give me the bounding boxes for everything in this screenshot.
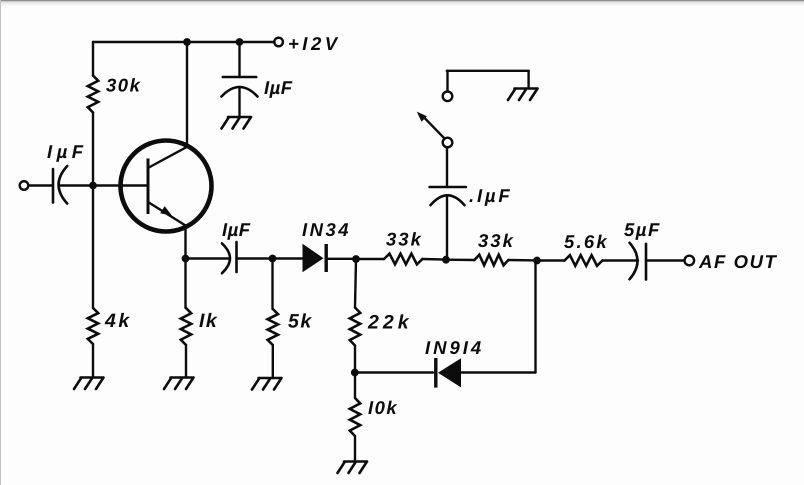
capacitor C1 1uF curved plate [59,166,68,204]
wire C5 to AF OUT [646,259,684,261]
node 10k junction dot [351,369,359,377]
resistor 1k [181,308,191,345]
node 22k junction dot [352,255,360,263]
resistor 22k [350,308,360,346]
svg-text:33k: 33k [386,229,423,250]
wire collector to rail [186,42,188,147]
svg-text:4k: 4k [104,310,132,332]
wire node to 5.6k [537,259,565,261]
svg-text:22k: 22k [367,312,413,334]
wire +12V top rail [93,41,275,43]
switch arm arrowhead [417,112,427,122]
svg-text:+I2V: +I2V [288,33,341,54]
wire 30k top lead [92,42,94,76]
wire 33k to switch node [422,258,446,261]
scan border left edge [0,0,1,485]
capacitor C5 5uF straight plate [645,244,648,280]
svg-text:IN9I4: IN9I4 [425,337,484,358]
wire C3 to 5k node [237,257,273,259]
transistor Q1 emitter stroke [149,203,186,226]
wire rail to C2 top plate [238,42,240,77]
capacitor C5 5uF curved plate [630,243,638,280]
wire 4k to ground [92,344,94,378]
svg-text:IN34: IN34 [302,219,351,240]
wire base node to transistor base [93,184,147,186]
wire 22k to 10k node [354,346,356,373]
diode D1 1N34 cathode bar [325,244,328,272]
AF OUT terminal [685,256,695,266]
resistor 10k [350,398,360,436]
wire emitter lead [184,226,186,259]
switch pole terminal [443,138,453,148]
input terminal [20,181,29,190]
capacitor C4 .1uF curved plate [431,195,465,205]
ground under 4k [74,378,104,390]
wire 10k node to D2 [355,371,433,373]
svg-text:AF OUT: AF OUT [698,251,778,272]
ground under 10k [338,462,368,474]
diode D2 1N914 triangle [438,358,461,387]
switch throw terminal [443,92,453,102]
wire D1 to 22k node [328,258,356,260]
capacitor C3 1uF straight plate [235,242,238,272]
ground under 5k [252,378,282,390]
diode D1 1N34 triangle [303,244,324,272]
capacitor C4 .1uF straight plate [430,186,466,189]
wire switch top rail [447,70,529,72]
svg-text:5.6k: 5.6k [564,231,609,252]
wire C2 to ground [238,87,240,117]
wire 5k node to D1 [273,257,304,259]
resistor 5.6k [565,255,603,266]
wire D2 to feedback corner [461,371,536,373]
node 5.6k junction dot [533,257,541,265]
switch arm [425,118,445,138]
wire 1k to ground [185,345,187,378]
wire C4 to switch pole [446,148,448,187]
wire input terminal to C1 [29,184,54,186]
wire 10k top lead [354,373,356,399]
svg-text:IµF: IµF [264,77,293,98]
wire feedback vertical [534,261,536,373]
wire 33k second to 5.6k node [508,259,537,262]
transistor Q1 emitter arrow [160,206,172,215]
capacitor C2 1uF curved plate [222,87,258,97]
resistor 30k [88,76,98,113]
wire rail down to ground [527,71,529,89]
node 5k junction dot [269,255,277,263]
resistor 5k [268,309,278,345]
node base junction dot [89,182,97,190]
resistor 33k second [474,255,508,266]
svg-text:30k: 30k [106,75,142,96]
wire 5k top lead [271,259,273,310]
wire throw terminal up [446,71,448,92]
capacitor C1 1uF straight plate [52,169,55,203]
svg-text:IµF: IµF [47,141,88,162]
wire 22k node to 33k [356,258,384,260]
svg-text:I0k: I0k [368,397,398,418]
svg-text:5µF: 5µF [624,219,661,240]
capacitor C2 1uF straight plate [223,76,256,79]
node collector rail junction dot [183,38,191,46]
node bypass cap rail junction dot [236,38,244,46]
wire switch node to 33k second [446,259,474,262]
wire switch node to C4 [446,196,448,260]
diode D2 1N914 cathode bar [434,358,437,388]
transistor Q1 body circle [121,141,212,232]
svg-text:.IµF: .IµF [469,185,512,206]
wire emitter node to 1k [184,259,186,309]
wire base branch (30k bottom to 4k top) [92,113,94,309]
scan border top edge [0,0,804,1]
transistor Q1 base bar [147,159,150,215]
capacitor C3 1uF curved plate [222,243,230,273]
svg-text:Ik: Ik [199,310,218,332]
wire 10k to ground [354,436,356,462]
ground under C2 [222,117,252,129]
transistor Q1 collector stroke [149,146,188,167]
resistor 33k first [384,254,422,265]
node switch junction dot [442,256,450,264]
ground under switch rail [508,89,538,101]
wire C1 to base node [59,184,93,186]
+12V terminal [274,38,283,47]
ground under 1k [164,378,194,390]
node emitter junction dot [182,255,190,263]
wire 5k to ground [272,345,274,378]
wire 22k top lead [355,259,356,308]
wire emitter node to C3 [186,257,230,259]
svg-text:5k: 5k [288,311,313,333]
wire 5.6k to C5 [602,259,638,261]
svg-text:IµF: IµF [222,219,251,240]
svg-text:33k: 33k [478,230,515,251]
resistor 4k [88,308,98,344]
